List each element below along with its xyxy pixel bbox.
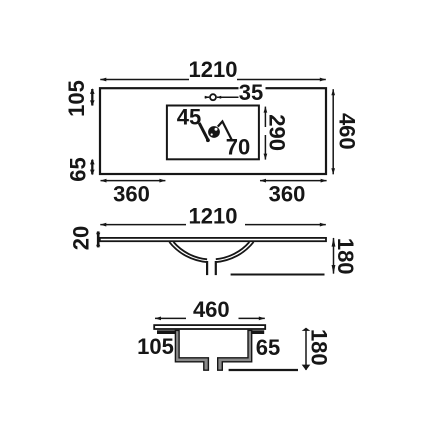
svg-text:65: 65 <box>65 157 90 181</box>
drain symbol (top view) <box>206 126 220 142</box>
dimension 65 (top view left) <box>90 159 95 175</box>
countertop slab (section) <box>154 325 265 329</box>
svg-text:360: 360 <box>269 182 306 207</box>
dimension 360 (bottom right of top view) <box>260 180 327 182</box>
dimension 180 (section right) <box>305 329 307 370</box>
extension line (front view bottom) <box>231 274 325 276</box>
leader 45 <box>199 123 208 141</box>
slab cut ledges (section) <box>157 330 180 334</box>
drain stub walls (front view) <box>207 261 216 275</box>
svg-text:460: 460 <box>335 113 360 150</box>
bowl profile (front view) <box>169 242 253 262</box>
dimension 290 (inside right) <box>264 107 266 160</box>
svg-text:290: 290 <box>265 114 290 151</box>
svg-text:460: 460 <box>193 297 230 322</box>
svg-text:70: 70 <box>226 135 250 160</box>
inner rectangle (bowl opening) <box>167 106 259 160</box>
faucet hole <box>210 94 216 100</box>
svg-text:1210: 1210 <box>189 204 238 229</box>
svg-text:1210: 1210 <box>189 57 238 82</box>
countertop slab (front view) <box>100 238 326 241</box>
svg-text:45: 45 <box>177 105 201 130</box>
dimension 1210 (top view) <box>100 79 325 81</box>
svg-text:35: 35 <box>239 80 263 105</box>
svg-text:105: 105 <box>137 334 174 359</box>
extension line (section bottom) <box>229 369 298 371</box>
basin outline (top view) <box>100 88 326 174</box>
dimension 460 (top view right) <box>332 89 334 174</box>
svg-text:20: 20 <box>68 226 93 250</box>
label 70 with leader <box>218 121 232 140</box>
svg-text:65: 65 <box>256 335 280 360</box>
svg-text:360: 360 <box>113 182 150 207</box>
svg-text:105: 105 <box>64 80 89 117</box>
svg-text:180: 180 <box>307 329 332 366</box>
dimension 180 (front view right) <box>333 238 335 274</box>
faucet hole leader / dimension 35 <box>205 96 240 98</box>
svg-text:180: 180 <box>333 238 358 275</box>
dimension 105 (top view left) <box>90 88 95 106</box>
basin wall right (section) <box>218 330 252 370</box>
basin wall left (section) <box>175 330 208 370</box>
dimension 360 (bottom left of top view) <box>101 180 166 182</box>
